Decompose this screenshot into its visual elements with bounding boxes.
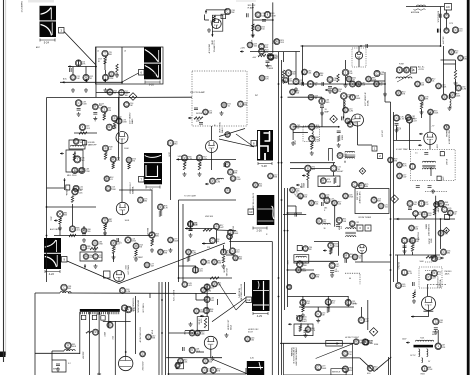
svg-text:R: R — [212, 179, 214, 183]
extra ref x300 y195 — [298, 193, 308, 199]
IF strip top border — [47, 96, 193, 98]
extra ref x411 y230 — [409, 225, 419, 231]
yoke terminal box b — [92, 315, 96, 319]
svg-text:FUSE: FUSE — [399, 64, 405, 66]
svg-text:C: C — [118, 119, 120, 123]
ref circle y124 — [347, 121, 357, 127]
waveform photo W4 (sync) — [44, 238, 61, 269]
extra ref x298 y270 — [296, 267, 307, 273]
wire y352 d2 — [196, 351, 204, 353]
wire control vert — [211, 31, 213, 35]
resistor x223 — [222, 256, 224, 263]
svg-text:1V P-P: 1V P-P — [410, 355, 416, 357]
ref circle C46 — [230, 176, 241, 182]
ref circle fuse2 — [404, 67, 414, 73]
video line y133 — [74, 132, 97, 134]
wire x430 up — [429, 112, 431, 132]
agc note — [50, 228, 62, 231]
arrow down 140V — [252, 34, 254, 38]
ref circle x293 — [290, 124, 300, 130]
dashed corner right top — [425, 191, 447, 193]
junction B+ corner — [440, 45, 442, 47]
svg-text:DEFLECTION: DEFLECTION — [137, 300, 139, 313]
wire x113 v c1 — [113, 253, 115, 262]
tube V16 sync output — [114, 271, 125, 282]
svg-text:C: C — [240, 102, 242, 106]
coil y292 — [60, 292, 71, 293]
note w8 — [250, 358, 254, 360]
svg-text:2.2M: 2.2M — [374, 369, 379, 371]
svg-text:8.2K: 8.2K — [104, 111, 107, 116]
tube V6 6AH6 vert osc — [206, 141, 218, 153]
wire x428 v2 — [428, 311, 430, 317]
resistor x421 — [420, 101, 424, 109]
yoke rot label 2 — [142, 303, 144, 313]
junction x338 y126 — [338, 126, 340, 128]
callout box 6 — [139, 70, 145, 76]
svg-text:10: 10 — [249, 210, 253, 214]
svg-text:R: R — [72, 227, 74, 231]
ref x207 y287 — [204, 284, 215, 290]
volume line y255 — [395, 254, 440, 256]
svg-text:C: C — [196, 309, 198, 313]
quad coil box — [294, 255, 309, 263]
lower-left bus line 3 — [165, 282, 167, 375]
svg-text:600: 600 — [432, 334, 435, 336]
ref circle V4 — [79, 124, 90, 131]
svg-text:150: 150 — [261, 29, 264, 31]
svg-text:C: C — [404, 238, 406, 242]
cap sif bottom b — [428, 186, 432, 188]
svg-text:C: C — [458, 86, 460, 90]
svg-text:R: R — [349, 122, 351, 126]
svg-text:C: C — [326, 198, 328, 202]
ground symbol 6 — [94, 264, 98, 268]
svg-text:220K: 220K — [111, 189, 116, 191]
svg-text:C: C — [455, 28, 457, 32]
ground symbol 48 — [383, 92, 387, 96]
svg-text:39K: 39K — [421, 101, 424, 106]
svg-text:470K: 470K — [300, 322, 303, 328]
svg-text:R: R — [338, 218, 340, 222]
cap y61 — [266, 61, 270, 63]
note vol ctrl — [420, 261, 425, 263]
rotated catalog text top left — [20, 2, 23, 13]
interlock label — [437, 11, 439, 23]
junction right col — [435, 203, 437, 205]
svg-text:R: R — [398, 91, 400, 95]
label 05mmf — [396, 127, 400, 132]
arrow y219 — [396, 218, 400, 220]
ref x356 y341 — [353, 339, 363, 345]
ref brightness — [305, 327, 316, 333]
IF label — [98, 59, 103, 64]
svg-text:R: R — [369, 366, 371, 370]
wire bottom x246 v — [245, 368, 247, 374]
svg-text:R: R — [59, 212, 61, 216]
label 36 — [324, 228, 326, 230]
note fuse — [399, 64, 405, 66]
ref x204 y370 — [202, 367, 212, 373]
extra ref x398 y93 — [396, 90, 406, 96]
wire x211 v b2 — [211, 126, 213, 140]
left section border vertical — [46, 98, 48, 283]
wire x308 d3 stem — [307, 324, 309, 327]
capacitor C32 — [262, 20, 266, 22]
ref x192 y350 — [189, 347, 201, 353]
speaker wire y353 — [35, 352, 80, 354]
ref circle R6 — [83, 74, 93, 80]
wire x190 stem b2 — [190, 220, 192, 228]
vert lin box — [318, 176, 340, 187]
svg-text:C: C — [148, 335, 150, 339]
ref x435 y321 — [433, 318, 443, 324]
wire x122 v b2 lower — [121, 144, 123, 202]
wire y351 — [52, 350, 64, 352]
wire y92 segment — [96, 92, 130, 94]
svg-text:C: C — [78, 101, 80, 105]
label 33mmf — [325, 109, 330, 113]
ground symbol 11 — [220, 111, 224, 115]
label 180 160 — [210, 20, 212, 23]
extra ref x460 y58 — [458, 55, 468, 61]
svg-text:R: R — [322, 179, 324, 183]
junction B+ left — [360, 45, 362, 47]
svg-text:.047: .047 — [403, 177, 407, 179]
svg-text:VERT: VERT — [308, 169, 311, 176]
svg-text:4.5 MC: 4.5 MC — [445, 159, 447, 166]
svg-text:100K: 100K — [236, 179, 241, 181]
wire x152 v2 — [151, 190, 153, 228]
svg-text:220K: 220K — [434, 113, 439, 115]
wire y81 — [370, 80, 385, 82]
svg-text:470K: 470K — [414, 289, 417, 295]
svg-text:270K: 270K — [98, 244, 103, 246]
label 140V d4 — [402, 339, 407, 341]
ref circle x346 y255 — [343, 253, 354, 259]
fine tuning resistor — [73, 151, 77, 161]
remote tube — [355, 52, 362, 59]
ref circle x170 — [167, 140, 177, 146]
ref x361 y320 — [358, 317, 369, 324]
box x445 y215 — [445, 215, 450, 220]
wire from box 9 to sync sep — [67, 261, 119, 284]
ground symbol 4 — [93, 117, 97, 121]
ground symbol 7 — [189, 233, 193, 237]
svg-text:R: R — [390, 158, 392, 162]
svg-text:TERMINAL: TERMINAL — [290, 347, 293, 357]
svg-text:L2: L2 — [97, 51, 99, 53]
ground symbol 15 — [320, 111, 324, 115]
svg-text:560: 560 — [439, 322, 442, 324]
ground symbol 24 — [56, 367, 60, 371]
sound ref h — [350, 81, 362, 87]
vertical text column left of W6 — [252, 193, 255, 210]
svg-text:C: C — [398, 283, 400, 287]
wire phase det top — [206, 9, 227, 11]
callout box 10 — [248, 209, 254, 215]
ref small b — [104, 176, 113, 182]
svg-text:R: R — [257, 26, 259, 30]
label 600 — [367, 373, 371, 375]
ref circle x333 y168 — [330, 165, 340, 172]
left page edge bottom tick — [0, 352, 6, 358]
ground symbol 38 — [211, 356, 215, 360]
svg-text:C: C — [63, 285, 65, 289]
wire y316 h — [411, 316, 429, 318]
rot text 450v — [141, 362, 143, 372]
svg-text:R: R — [112, 157, 114, 161]
arrow below sync box — [84, 264, 86, 268]
svg-text:.047: .047 — [413, 121, 417, 123]
rot text to deflection — [132, 298, 134, 313]
junction dot 21 — [302, 73, 304, 75]
svg-text:2.2M: 2.2M — [126, 291, 131, 293]
svg-text:C: C — [226, 162, 228, 166]
svg-text:C: C — [81, 168, 83, 172]
note y240 c2 — [119, 243, 122, 245]
diagonal up right — [212, 298, 246, 322]
ground symbol 3 — [77, 112, 81, 116]
svg-text:C: C — [407, 115, 409, 119]
ref x230 y232 — [228, 230, 240, 236]
extra res x160 — [159, 211, 161, 217]
svg-text:.001: .001 — [315, 204, 319, 206]
svg-text:39K: 39K — [199, 161, 202, 166]
wire y357 d2 — [166, 357, 222, 359]
left low vertical — [34, 293, 36, 375]
diamond small TP4 — [359, 168, 365, 174]
diamond TP5 — [391, 195, 399, 203]
diagonal from blob7 box — [218, 282, 236, 310]
svg-text:MEG: MEG — [275, 39, 277, 44]
ref x455 y30 — [452, 27, 462, 33]
wire y20 a2 — [205, 19, 210, 21]
label 180mmf — [269, 66, 274, 70]
svg-text:220K: 220K — [109, 78, 114, 80]
note yoke vert — [103, 332, 105, 338]
svg-text:130C: 130C — [124, 265, 126, 270]
svg-text:4.5 MC TRAP: 4.5 MC TRAP — [396, 148, 408, 151]
svg-text:C: C — [203, 288, 205, 292]
junction dot 7 — [390, 254, 392, 256]
ref circle C31 — [255, 12, 266, 18]
svg-text:2.2M: 2.2M — [349, 111, 354, 113]
svg-text:HEIGHT: HEIGHT — [337, 171, 345, 173]
wire x244 v d3 — [244, 282, 246, 296]
svg-text:LIN 500: LIN 500 — [197, 319, 199, 325]
note deemph — [396, 148, 408, 151]
right long vertical 1 — [390, 102, 392, 375]
label 140V ratio — [294, 140, 296, 145]
wire x125 yoke stem — [125, 312, 127, 318]
ground symbol 1 — [84, 88, 88, 92]
ref beside sqbox — [303, 246, 312, 252]
svg-text:150: 150 — [132, 310, 135, 312]
svg-text:C: C — [344, 351, 346, 355]
svg-text:150: 150 — [207, 263, 210, 265]
ground symbol 30 — [103, 231, 107, 235]
svg-text:R: R — [339, 153, 341, 157]
wire y104 a3 — [253, 19, 273, 21]
resistor x152 — [151, 238, 155, 246]
ref x421 y203 — [418, 200, 429, 207]
ground symbol 39 — [225, 333, 229, 337]
wire y190c2 h — [119, 189, 152, 191]
wire x318 v d3 — [317, 307, 319, 311]
center bus line 1 — [278, 52, 280, 375]
video out line y200 — [179, 199, 237, 201]
wire x390 y102 start — [384, 94, 386, 102]
sound ref f — [342, 69, 353, 76]
note height — [337, 171, 345, 173]
svg-text:.02: .02 — [297, 127, 300, 129]
extra ref x430 y112 — [428, 109, 439, 115]
wire y159 b2 — [176, 158, 236, 160]
ref circle y101 — [319, 98, 329, 104]
svg-text:MEG: MEG — [335, 271, 340, 273]
resistor x60 — [59, 218, 63, 224]
svg-text:C: C — [270, 174, 272, 178]
wire x322 v3 — [321, 122, 323, 127]
svg-text:+270V: +270V — [352, 304, 358, 306]
svg-text:R: R — [295, 79, 297, 83]
arrow down control — [211, 34, 213, 37]
svg-text:680: 680 — [156, 236, 159, 238]
center bus line 3 — [284, 188, 286, 310]
sound cap — [322, 82, 324, 86]
ref x452 y95 — [450, 92, 462, 98]
extra ref x119 y121 — [116, 118, 128, 124]
svg-text:R: R — [160, 205, 162, 209]
svg-text:180: 180 — [125, 95, 128, 97]
svg-text:680: 680 — [464, 59, 467, 61]
sync box small — [80, 252, 102, 261]
extra cap x190 y110 — [194, 108, 198, 110]
svg-text:C: C — [460, 56, 462, 60]
cap sif bottom a — [416, 186, 420, 188]
diagonal in cage — [316, 343, 354, 358]
label 140V x170 — [168, 152, 170, 157]
svg-text:BOOST 550V: BOOST 550V — [172, 290, 174, 302]
ground symbol 31 — [301, 313, 305, 317]
wire x293 v — [292, 130, 294, 140]
ref circle x152 y235 — [149, 232, 159, 238]
yoke rot label 1 — [137, 300, 139, 313]
svg-text:R: R — [292, 188, 294, 192]
wire x334 v c3 — [334, 205, 336, 227]
svg-text:100K: 100K — [456, 96, 461, 98]
sound takeoff coil box — [69, 140, 85, 149]
AGC wire y207 — [47, 206, 97, 208]
svg-text:C: C — [230, 170, 232, 174]
ref x345 y369 — [342, 366, 353, 373]
focus arrow — [327, 342, 339, 344]
junction dot 6 — [390, 218, 392, 220]
svg-text:140V: 140V — [168, 152, 170, 157]
resistor x72 y195 — [71, 196, 73, 203]
svg-text:270K: 270K — [445, 204, 450, 206]
resistor y230 — [203, 229, 212, 231]
svg-text:.047: .047 — [336, 266, 340, 268]
dashed box corner c3 — [345, 273, 360, 284]
svg-text:.001: .001 — [211, 300, 215, 302]
wire x449 stem — [449, 94, 451, 99]
wire x415 v c4 — [415, 217, 417, 220]
cap x404 y246 — [403, 246, 407, 248]
wire from box 12 — [236, 300, 246, 310]
yoke box left — [79, 312, 81, 354]
wire x72 v c1 — [72, 204, 74, 226]
svg-text:.02: .02 — [314, 98, 317, 100]
resistor R5 — [116, 64, 118, 72]
tube V12 sound out — [357, 244, 366, 253]
wire x64 stem d1 — [63, 291, 65, 293]
label 140V b2 — [178, 156, 183, 158]
svg-text:.01: .01 — [358, 258, 361, 260]
wire vert x296 c3 — [295, 206, 297, 213]
pilot lamp I2 — [444, 28, 449, 33]
note boost — [295, 315, 297, 322]
extra ref x428 y80 — [426, 77, 436, 83]
ground symbol 12 — [251, 33, 255, 37]
wire y145 b4 — [358, 144, 373, 146]
svg-text:C: C — [184, 282, 186, 286]
yoke inner v1 — [89, 312, 91, 375]
svg-text:C: C — [232, 176, 234, 180]
ground symbol 21 — [434, 330, 438, 334]
label 4.5mc — [445, 159, 447, 166]
wire x204 stem a2 — [204, 15, 206, 21]
extra ref x255 y190 — [253, 182, 263, 188]
extra res x129 — [128, 163, 130, 169]
resistor in vert lin box — [204, 318, 206, 328]
dashed bits right col — [425, 262, 432, 276]
resistor R4 — [104, 55, 108, 64]
svg-text:150: 150 — [259, 186, 262, 188]
wire y261 c3 — [294, 260, 338, 262]
wire V right arm — [119, 243, 225, 284]
extra ref x205 y112 — [203, 109, 213, 115]
interlock cap — [440, 14, 442, 18]
extra ref x304 y72 — [302, 69, 312, 75]
ref circle x409 y120 — [406, 117, 416, 123]
svg-text:100K: 100K — [125, 220, 130, 222]
junction dot 15 — [281, 162, 283, 164]
cap x190 y228 — [189, 229, 193, 231]
sound takeoff y219 — [394, 218, 455, 220]
arrow 140v d4 — [406, 341, 410, 343]
wire x283 v — [283, 52, 285, 62]
ground symbol 35 — [420, 110, 424, 114]
ref x227 y164 — [224, 161, 230, 167]
svg-text:C: C — [204, 368, 206, 372]
label y246 — [207, 247, 211, 249]
svg-text:6DQ6: 6DQ6 — [230, 325, 232, 330]
svg-text:.02: .02 — [87, 248, 90, 250]
extra ref x290 y190 — [290, 187, 300, 193]
rot label x113 — [111, 336, 113, 340]
ground symbol 44 — [115, 73, 119, 77]
ref x122 y290 — [120, 288, 131, 294]
wire x68 stem d1 — [67, 349, 69, 351]
sif small box b — [437, 176, 441, 180]
ground symbol 26 — [134, 257, 138, 261]
svg-text:R: R — [216, 224, 218, 228]
wire x64 down — [64, 182, 66, 190]
wire y230 c2b — [217, 229, 237, 232]
wire x338 stem — [338, 242, 340, 246]
